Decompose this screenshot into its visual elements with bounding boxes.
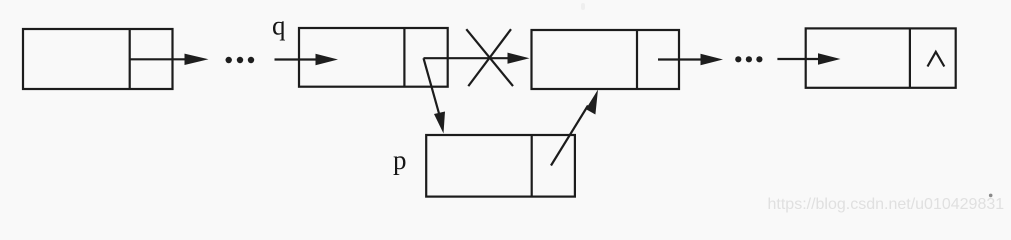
null marker ^ in node 4 — [928, 52, 945, 67]
node box 3 — [532, 30, 680, 89]
node box 2 (node q) — [299, 28, 448, 87]
wire: link from node p up into node 3 — [551, 90, 598, 166]
faint scan blotch top center — [581, 3, 585, 10]
node box 1 (head node) — [23, 29, 173, 89]
svg-text:p: p — [393, 145, 407, 175]
wire arrow from node 1 to ellipsis — [173, 54, 209, 65]
wire arrow from node 3 to ellipsis — [658, 54, 723, 65]
node box p — [426, 135, 575, 197]
node box 4 (tail node) — [806, 28, 956, 87]
svg-text:https://blog.csdn.net/u0104298: https://blog.csdn.net/u010429831 — [768, 196, 1005, 213]
ellipsis dots (left) — [226, 57, 255, 63]
scan speck near watermark — [989, 194, 993, 198]
cross X over old link — [466, 29, 513, 86]
svg-text:q: q — [272, 11, 286, 41]
wire arrow pointing into node 4 — [777, 53, 840, 64]
wire arrow q pointing into node 2 — [275, 54, 339, 65]
wire: old link from node 2 toward node 3 (to be crossed) — [424, 53, 530, 64]
ellipsis dots (right) — [735, 56, 762, 62]
wire: new link from node 2 down to node p — [424, 58, 446, 133]
